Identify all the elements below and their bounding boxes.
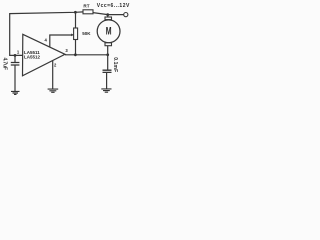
node junction dot pin1/cap: [14, 54, 17, 57]
wire capacitor C1 top lead: [14, 55, 16, 62]
wire motor top lead: [107, 15, 109, 17]
resistor RT: [83, 10, 93, 14]
potentiometer 50K body: [74, 28, 78, 40]
wiper arrowhead: [71, 34, 74, 37]
wire Vcc rail right segment (RT to terminal): [93, 13, 124, 15]
ground right: [101, 89, 111, 92]
svg-text:Vcc=6...12V: Vcc=6...12V: [97, 3, 130, 9]
wire pin 2 down: [52, 61, 54, 89]
node junction dot output/motor: [106, 53, 109, 56]
background: [0, 0, 131, 100]
motor M top brush tab: [105, 17, 112, 20]
svg-text:M: M: [106, 25, 112, 37]
wire capacitor C1 bottom lead: [14, 65, 16, 91]
wire capacitor C2 bottom lead: [106, 73, 108, 89]
wire pin 4 to wiper: [50, 35, 72, 47]
ground pin 2: [48, 89, 59, 92]
capacitor C2 0.1mF plates: [103, 70, 112, 72]
svg-text:0.1mF: 0.1mF: [112, 57, 118, 72]
node junction dot rail/motor: [106, 13, 109, 16]
node junction dot output/50K: [74, 53, 77, 56]
terminal Vcc open circle: [124, 13, 128, 17]
motor M bottom brush tab: [105, 43, 112, 46]
wire op-amp output to motor branch: [65, 54, 108, 56]
ground left: [11, 91, 20, 94]
wire Vcc rail left segment + left drop to pin 1: [10, 12, 83, 56]
svg-text:4.7uF: 4.7uF: [1, 58, 7, 70]
wire 50K bottom stem: [75, 40, 77, 55]
svg-text:50K: 50K: [82, 31, 91, 36]
svg-text:RT: RT: [83, 4, 89, 9]
op-amp U1 LA5511 triangle: [23, 34, 66, 76]
node junction dot rail/50K: [74, 11, 77, 14]
motor M circle: [97, 20, 120, 43]
wire 50K top stem: [75, 12, 77, 28]
capacitor C1 4.7uF plates: [11, 63, 20, 66]
wire motor bottom lead: [107, 46, 109, 71]
svg-text:LA5512: LA5512: [24, 55, 41, 60]
